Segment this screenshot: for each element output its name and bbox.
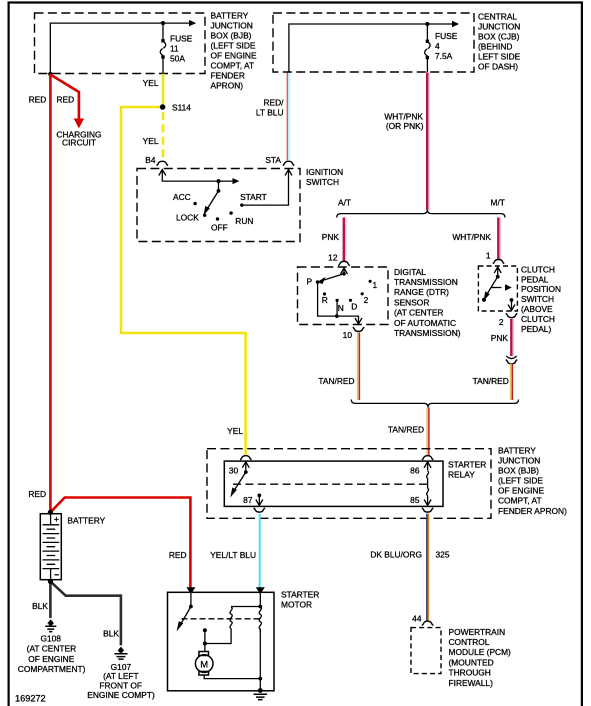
wire RED branch to charging circuit bbox=[50, 75, 79, 121]
svg-text:JUNCTION: JUNCTION bbox=[211, 20, 253, 30]
fuse F11 (FUSE 11 50A) bbox=[160, 23, 192, 74]
svg-text:BOX (BJB): BOX (BJB) bbox=[211, 30, 252, 40]
svg-text:11: 11 bbox=[170, 43, 179, 53]
svg-text:2: 2 bbox=[499, 317, 504, 327]
ground G107 bbox=[114, 647, 127, 660]
svg-text:RED: RED bbox=[169, 550, 187, 560]
brace split A/T / M/T bbox=[337, 210, 505, 218]
svg-text:TAN/RED: TAN/RED bbox=[318, 376, 354, 386]
svg-text:ACC: ACC bbox=[173, 192, 191, 202]
svg-text:85: 85 bbox=[410, 495, 420, 505]
label G108 (AT CENTER OF ENGINE COMPARTMENT) bbox=[18, 633, 86, 674]
starter ground bbox=[254, 688, 268, 700]
brace join TAN/RED bbox=[351, 400, 518, 408]
svg-text:OF DASH): OF DASH) bbox=[478, 62, 518, 72]
svg-text:A/T: A/T bbox=[338, 197, 351, 207]
connector relay pin 30 bbox=[240, 456, 252, 460]
splice S114 bbox=[160, 102, 191, 112]
node: CJB bus dot bbox=[425, 22, 429, 26]
contact 1 bbox=[369, 280, 378, 291]
relay pin 87 bbox=[256, 494, 263, 506]
svg-text:(AT CENTER: (AT CENTER bbox=[27, 644, 76, 654]
wire TAN/RED (clutch) bbox=[511, 364, 513, 401]
relay pin 86 arrow bbox=[424, 462, 431, 471]
wire TAN/RED (combined to relay) bbox=[427, 407, 429, 456]
PCM dashed box bbox=[411, 628, 441, 674]
svg-text:THROUGH: THROUGH bbox=[449, 668, 491, 678]
central junction box CJB dashed box bbox=[273, 13, 474, 72]
clutch pin 1 arrow + wiper bbox=[482, 267, 501, 302]
svg-text:R: R bbox=[322, 295, 328, 305]
relay coil bbox=[427, 471, 429, 505]
svg-text:P: P bbox=[307, 276, 313, 286]
starter entry arrow (YEL/LT BLU) bbox=[256, 587, 265, 594]
label STARTER MOTOR bbox=[281, 589, 319, 609]
svg-text:4: 4 bbox=[435, 41, 440, 51]
clutch pin 2 bbox=[508, 298, 515, 310]
svg-text:DK BLU/ORG: DK BLU/ORG bbox=[370, 549, 422, 559]
wire RED main (to battery) bbox=[49, 74, 52, 512]
relay pin 85 bbox=[424, 500, 431, 506]
svg-text:G108: G108 bbox=[40, 633, 61, 643]
svg-text:TRANSMISSION): TRANSMISSION) bbox=[394, 328, 461, 338]
solenoid windings bbox=[205, 592, 262, 679]
svg-text:OF AUTOMATIC: OF AUTOMATIC bbox=[394, 318, 456, 328]
svg-text:START: START bbox=[240, 192, 267, 202]
svg-text:7.5A: 7.5A bbox=[435, 51, 453, 61]
svg-text:RED: RED bbox=[29, 95, 47, 105]
svg-text:TAN/RED: TAN/RED bbox=[388, 424, 424, 434]
svg-text:169272: 169272 bbox=[15, 693, 46, 703]
starter solenoid switch bbox=[177, 592, 193, 631]
wire YEL dashed to ignition switch B4 bbox=[162, 112, 165, 161]
svg-text:M: M bbox=[200, 659, 208, 670]
svg-text:S114: S114 bbox=[172, 102, 191, 112]
battery junction box BJB (top-left) dashed box bbox=[35, 13, 206, 74]
svg-text:YEL: YEL bbox=[143, 136, 159, 146]
CJB label text bbox=[478, 12, 521, 72]
node: switch feed dot bbox=[217, 179, 221, 183]
wire BLK to G108 bbox=[49, 581, 52, 618]
motor ground wire bbox=[204, 675, 262, 691]
ignition switch dashed box bbox=[137, 169, 300, 242]
svg-text:(ABOVE: (ABOVE bbox=[521, 304, 553, 314]
wire WHT/PNK (M/T drop) bbox=[498, 218, 500, 260]
svg-text:STA: STA bbox=[265, 155, 281, 165]
svg-text:PEDAL: PEDAL bbox=[521, 274, 549, 284]
wire YEL/LT BLU bbox=[259, 514, 261, 588]
DTR output wire P/N to pin 10 bbox=[318, 282, 362, 324]
connector relay pin 86 (top) bbox=[422, 456, 434, 460]
connector PCM pin 44 bbox=[422, 621, 434, 625]
node: battery negative junction bbox=[48, 579, 53, 584]
arrow to charging circuit bbox=[74, 119, 84, 129]
svg-text:2: 2 bbox=[364, 295, 369, 305]
wire RED battery to starter bbox=[50, 498, 190, 589]
ignition switch wiper bbox=[204, 181, 221, 215]
relay internal dashed line bbox=[233, 483, 428, 485]
svg-text:B4: B4 bbox=[145, 155, 156, 165]
BJB bus wire with arrow bbox=[50, 20, 196, 74]
contact LOCK bbox=[176, 212, 206, 222]
svg-text:COMPARTMENT): COMPARTMENT) bbox=[18, 664, 86, 674]
wire PNK (clutch) bbox=[511, 319, 513, 356]
svg-text:MODULE (PCM): MODULE (PCM) bbox=[449, 647, 512, 657]
svg-text:POWERTRAIN: POWERTRAIN bbox=[449, 627, 506, 637]
svg-text:(LEFT SIDE: (LEFT SIDE bbox=[498, 476, 543, 486]
svg-text:(BEHIND: (BEHIND bbox=[478, 42, 512, 52]
wire BLK to G107 bbox=[50, 581, 121, 645]
contact RUN bbox=[229, 211, 253, 226]
svg-text:TRANSMISSION: TRANSMISSION bbox=[394, 277, 458, 287]
svg-text:FIREWALL): FIREWALL) bbox=[449, 678, 494, 688]
svg-text:YEL/LT BLU: YEL/LT BLU bbox=[210, 550, 256, 560]
node: junction dot at box bottom bbox=[48, 72, 52, 76]
svg-text:12: 12 bbox=[328, 252, 338, 262]
svg-text:LEFT SIDE: LEFT SIDE bbox=[478, 52, 521, 62]
svg-text:CIRCUIT: CIRCUIT bbox=[62, 138, 96, 148]
connector clutch pin 1 bbox=[493, 260, 505, 264]
svg-text:44: 44 bbox=[412, 613, 422, 623]
svg-text:1: 1 bbox=[373, 280, 378, 290]
contact OFF bbox=[211, 217, 228, 232]
connector relay pin 85 bbox=[422, 508, 434, 512]
label WHT/PNK (OR PNK) bbox=[384, 112, 423, 132]
svg-text:RELAY: RELAY bbox=[448, 470, 475, 480]
connector STA bbox=[283, 161, 295, 165]
svg-text:BATTERY: BATTERY bbox=[211, 10, 249, 20]
svg-text:SENSOR: SENSOR bbox=[394, 297, 429, 307]
label STARTER RELAY bbox=[448, 460, 486, 480]
svg-text:OF ENGINE: OF ENGINE bbox=[211, 50, 257, 60]
svg-text:SWITCH: SWITCH bbox=[306, 177, 339, 187]
node: bus junction dot bbox=[161, 21, 165, 25]
svg-text:87: 87 bbox=[243, 495, 253, 505]
connector DTR pin 12 bbox=[338, 261, 350, 265]
in-line connector C117 bbox=[506, 356, 518, 364]
svg-text:OFF: OFF bbox=[211, 223, 228, 233]
svg-text:COMPT, AT: COMPT, AT bbox=[498, 496, 542, 506]
connector DTR pin 10 bbox=[353, 327, 365, 331]
svg-text:COMPT, AT: COMPT, AT bbox=[211, 60, 255, 70]
svg-text:N: N bbox=[338, 303, 344, 313]
node: battery positive junction bbox=[48, 510, 53, 515]
svg-text:CENTRAL: CENTRAL bbox=[478, 12, 517, 22]
svg-text:50A: 50A bbox=[170, 53, 185, 63]
svg-text:OF ENGINE: OF ENGINE bbox=[28, 654, 74, 664]
svg-text:WHT/PNK: WHT/PNK bbox=[384, 112, 423, 122]
starter motor solid box bbox=[168, 592, 275, 691]
svg-text:CONTROL: CONTROL bbox=[449, 637, 490, 647]
wire TAN/RED (from DTR) bbox=[358, 333, 360, 401]
svg-text:LT BLU: LT BLU bbox=[256, 107, 284, 117]
svg-text:BATTERY: BATTERY bbox=[498, 446, 536, 456]
svg-text:BOX (CJB): BOX (CJB) bbox=[478, 32, 520, 42]
svg-text:TAN/RED: TAN/RED bbox=[473, 376, 509, 386]
contact 2 bbox=[361, 292, 369, 305]
svg-text:CLUTCH: CLUTCH bbox=[521, 314, 555, 324]
svg-text:APRON): APRON) bbox=[211, 81, 244, 91]
label RED/ LT BLU bbox=[256, 97, 284, 117]
svg-text:PNK: PNK bbox=[491, 333, 509, 343]
svg-text:(MOUNTED: (MOUNTED bbox=[449, 657, 494, 667]
svg-text:DIGITAL: DIGITAL bbox=[394, 267, 426, 277]
svg-text:325: 325 bbox=[436, 549, 450, 559]
svg-text:LOCK: LOCK bbox=[176, 212, 199, 222]
connector clutch pin 2 bbox=[506, 313, 518, 317]
svg-text:D: D bbox=[351, 301, 357, 311]
svg-text:STARTER: STARTER bbox=[448, 460, 486, 470]
svg-text:(LEFT SIDE: (LEFT SIDE bbox=[211, 40, 256, 50]
contact D bbox=[349, 299, 357, 312]
svg-text:PEDAL): PEDAL) bbox=[521, 324, 551, 334]
svg-text:RED/: RED/ bbox=[263, 97, 284, 107]
wire YEL branch to starter relay bbox=[121, 107, 246, 456]
label G107 (AT LEFT FRONT OF ENGINE COMPT) bbox=[87, 662, 155, 700]
wire PNK (A/T drop) bbox=[344, 218, 346, 262]
svg-text:1: 1 bbox=[486, 250, 491, 260]
svg-text:RED: RED bbox=[28, 489, 46, 499]
DTR sensor dashed box bbox=[298, 267, 389, 325]
svg-text:JUNCTION: JUNCTION bbox=[498, 456, 540, 466]
contact N bbox=[336, 299, 344, 314]
wire YEL fuse to S114 bbox=[162, 74, 165, 107]
pin B4 arrow into switch bbox=[159, 170, 240, 185]
BJB label text bbox=[211, 10, 257, 90]
svg-text:WHT/PNK: WHT/PNK bbox=[452, 232, 491, 242]
motor M bbox=[195, 652, 213, 676]
svg-text:IGNITION: IGNITION bbox=[306, 167, 343, 177]
svg-text:(AT CENTER: (AT CENTER bbox=[394, 308, 443, 318]
svg-text:SWITCH: SWITCH bbox=[521, 294, 554, 304]
svg-text:RUN: RUN bbox=[235, 216, 253, 226]
relay pin 30 arrow bbox=[242, 462, 249, 474]
svg-text:FENDER: FENDER bbox=[211, 70, 245, 80]
svg-text:RANGE (DTR): RANGE (DTR) bbox=[394, 287, 449, 297]
svg-text:FUSE: FUSE bbox=[170, 33, 193, 43]
solenoid contact stub bbox=[203, 628, 207, 651]
ground G108 bbox=[45, 619, 56, 631]
svg-text:10: 10 bbox=[343, 330, 353, 340]
svg-text:BOX (BJB): BOX (BJB) bbox=[498, 466, 539, 476]
svg-text:ENGINE COMPT): ENGINE COMPT) bbox=[87, 690, 155, 700]
svg-text:JUNCTION: JUNCTION bbox=[478, 22, 520, 32]
svg-text:FUSE: FUSE bbox=[435, 31, 458, 41]
wire DK BLU/ORG bbox=[427, 514, 429, 621]
svg-text:BLK: BLK bbox=[32, 601, 48, 611]
DTR label text bbox=[394, 267, 461, 338]
contact START bbox=[240, 192, 267, 207]
starter relay solid box bbox=[224, 461, 443, 506]
BJB2 label text bbox=[498, 446, 567, 516]
svg-text:PNK: PNK bbox=[322, 232, 340, 242]
wire WHT/PNK bbox=[427, 72, 429, 209]
DTR pin 12 arrow + wiper bbox=[318, 268, 348, 284]
svg-text:POSITION: POSITION bbox=[521, 284, 561, 294]
contact ACC bbox=[173, 192, 197, 206]
wire RED/LT BLU bbox=[287, 72, 289, 160]
clutch pedal position switch dashed box bbox=[478, 266, 517, 311]
svg-text:(OR PNK): (OR PNK) bbox=[386, 121, 424, 131]
svg-text:M/T: M/T bbox=[491, 197, 505, 207]
svg-text:BLK: BLK bbox=[103, 629, 119, 639]
svg-text:OF ENGINE: OF ENGINE bbox=[498, 486, 544, 496]
svg-text:CLUTCH: CLUTCH bbox=[521, 264, 555, 274]
svg-text:MOTOR: MOTOR bbox=[281, 599, 312, 609]
battery junction box BJB2 dashed box (starter relay) bbox=[207, 449, 491, 519]
svg-text:BATTERY: BATTERY bbox=[67, 515, 105, 525]
connector relay pin 87 bbox=[253, 508, 265, 512]
CJB bus wire with arrow bbox=[289, 21, 459, 72]
START to STA wire bbox=[242, 170, 292, 206]
label IGNITION SWITCH bbox=[306, 167, 343, 187]
contact R bbox=[322, 292, 328, 304]
PCM label text bbox=[449, 627, 512, 688]
label CHARGING CIRCUIT bbox=[56, 130, 101, 148]
svg-text:86: 86 bbox=[410, 465, 420, 475]
label DK BLU/ORG 325 bbox=[370, 549, 449, 559]
svg-text:FENDER APRON): FENDER APRON) bbox=[498, 506, 567, 516]
svg-text:STARTER: STARTER bbox=[281, 589, 319, 599]
clutch actuation arrow bbox=[491, 284, 512, 290]
contact P bbox=[307, 276, 320, 286]
clutch switch label text bbox=[521, 264, 561, 333]
fuse F4 (FUSE 4 7.5A) bbox=[425, 24, 458, 72]
svg-text:RED: RED bbox=[57, 95, 75, 105]
connector B4 bbox=[157, 161, 169, 165]
starter entry arrow (RED) bbox=[186, 587, 195, 594]
starter internal dashed line bbox=[182, 618, 261, 620]
battery bbox=[40, 514, 61, 580]
svg-text:30: 30 bbox=[229, 465, 239, 475]
svg-text:YEL: YEL bbox=[227, 426, 243, 436]
svg-text:YEL: YEL bbox=[143, 78, 159, 88]
svg-text:+: + bbox=[54, 514, 59, 524]
relay contact wiper bbox=[230, 472, 246, 497]
